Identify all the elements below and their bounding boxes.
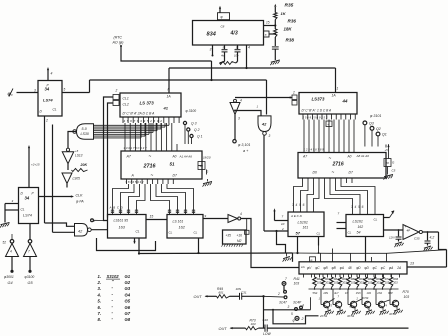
svg-text:φD: φD xyxy=(356,266,361,270)
svg-text:R41: R41 xyxy=(294,277,300,281)
svg-text:G: G xyxy=(206,170,209,174)
svg-text:34: 34 xyxy=(25,196,30,201)
pin box a on U43 right xyxy=(264,31,270,37)
svg-text:CLK: CLK xyxy=(76,194,84,198)
svg-text:φC: φC xyxy=(315,266,320,270)
svg-text:-: - xyxy=(112,316,114,321)
nested data bus loops U51 to counters xyxy=(113,184,129,210)
wire U162 right pin to buffer U55 xyxy=(203,218,228,220)
wire U34b left pins xyxy=(5,203,19,205)
svg-text:LS30: LS30 xyxy=(81,132,89,136)
terminal pad left of U163 xyxy=(91,219,94,222)
svg-text:7: 7 xyxy=(282,215,284,219)
svg-text:A8 A1 A0: A8 A1 A0 xyxy=(356,154,370,158)
svg-text:7.: 7. xyxy=(98,311,102,316)
svg-text:2716: 2716 xyxy=(332,162,344,168)
svg-text:Q2: Q2 xyxy=(376,127,381,131)
wire U43 pin15 to resistor chain xyxy=(264,25,276,27)
wire G4 down to pad xyxy=(11,257,13,271)
svg-text:3C4P: 3C4P xyxy=(293,301,302,305)
bundle of 8 address lines from U41 to gate Y1 xyxy=(93,124,169,126)
svg-text:φ: φ xyxy=(311,258,313,262)
wire U54b left pins xyxy=(337,222,347,224)
svg-text:5: 5 xyxy=(331,304,333,308)
wire pin a to chain xyxy=(269,33,275,35)
svg-text:5: 5 xyxy=(64,88,66,92)
svg-text:3: 3 xyxy=(288,305,290,309)
svg-text:-: - xyxy=(112,298,114,303)
svg-text:LS161: LS161 xyxy=(298,221,308,225)
svg-text:3: 3 xyxy=(12,199,14,203)
resistor 20K horizontal xyxy=(72,168,88,171)
svg-text:+16: +16 xyxy=(237,234,243,238)
svg-text:4P: 4P xyxy=(407,229,411,233)
svg-text:42: 42 xyxy=(78,230,83,234)
vertical address lines crossing down to EPROM U51 xyxy=(124,123,126,144)
svg-text:2.: 2. xyxy=(97,280,102,285)
wire U45 input down to terminal xyxy=(234,115,236,140)
svg-text:5-0: 5-0 xyxy=(82,127,87,131)
svg-text:103: 103 xyxy=(294,282,300,286)
svg-text:LS 161: LS 161 xyxy=(173,220,184,224)
pin stubs above U163 xyxy=(112,210,114,215)
inverter U52 LS13 triangle xyxy=(66,148,69,151)
svg-text:(RTC: (RTC xyxy=(114,36,123,40)
svg-text:R66: R66 xyxy=(393,277,398,281)
ground right of U51 loops xyxy=(207,179,209,182)
svg-text:a +: a + xyxy=(243,149,249,153)
svg-text:φ 3101: φ 3101 xyxy=(370,114,381,118)
wire RTC down and right net W1 xyxy=(121,46,212,61)
counter U54b 74LS161 box xyxy=(346,215,384,237)
wire net W2 long horizontal xyxy=(90,79,267,81)
svg-text:CL: CL xyxy=(374,218,378,222)
svg-text:CL2: CL2 xyxy=(123,103,129,107)
svg-text:+2+15: +2+15 xyxy=(31,163,40,167)
svg-text:1 2 3 4 5 6 7 8 9: 1 2 3 4 5 6 7 8 9 xyxy=(304,147,325,151)
svg-text:M2: M2 xyxy=(237,239,242,243)
flip-flop U34a 74LS74 box xyxy=(38,81,62,117)
transistor Q15 xyxy=(392,300,398,306)
pin stubs below EPROM U54 xyxy=(302,178,304,183)
wire inverter U45 to U44 pin2 xyxy=(235,97,292,99)
svg-text:R66: R66 xyxy=(351,277,356,281)
svg-text:~: ~ xyxy=(332,170,335,175)
svg-text:2: 2 xyxy=(356,297,359,301)
svg-text:+35: +35 xyxy=(226,234,232,238)
terminal Q3 right xyxy=(363,121,367,125)
vertical lines U44 down to EPROM U54 xyxy=(303,120,305,146)
svg-text:4: 4 xyxy=(302,304,304,308)
svg-text:2: 2 xyxy=(301,317,304,321)
counter U57 74LS161 box xyxy=(288,212,324,237)
wire step horizontal y309 xyxy=(264,309,311,311)
wire arrow pin7 into U57 xyxy=(274,211,276,221)
wire op-amp output right xyxy=(422,231,438,233)
svg-text:-: - xyxy=(112,291,114,296)
svg-text:A1 A4 A6: A1 A4 A6 xyxy=(179,155,193,159)
svg-text:11: 11 xyxy=(236,46,239,50)
svg-text:3: 3 xyxy=(210,48,212,52)
svg-text:φ: φ xyxy=(293,319,295,323)
svg-text:C8: C8 xyxy=(221,25,225,29)
svg-text:G5: G5 xyxy=(28,281,34,285)
svg-text:6.: 6. xyxy=(98,305,102,310)
svg-text:G3: G3 xyxy=(125,286,131,291)
nested data bus loops U54 to counters xyxy=(294,183,303,207)
svg-text:G6: G6 xyxy=(125,305,131,310)
svg-text:LS161 95: LS161 95 xyxy=(114,219,129,223)
svg-text:162: 162 xyxy=(358,225,364,229)
pin stubs below EPROM U51 xyxy=(126,179,128,184)
svg-text:Q 2: Q 2 xyxy=(194,128,200,132)
svg-text:163: 163 xyxy=(119,226,126,230)
capacitor C31 xyxy=(239,293,241,300)
svg-text:2716: 2716 xyxy=(143,164,157,170)
flag box on top of U48 xyxy=(310,257,316,262)
wire U34a bottom pin down long vertical xyxy=(44,116,46,223)
svg-text:+5: +5 xyxy=(385,148,389,152)
terminal phi3101 a+ xyxy=(233,140,236,143)
node RTC stub xyxy=(120,45,122,47)
svg-text:G2: G2 xyxy=(125,280,131,285)
wire U34b bottom to buffer G5 xyxy=(29,224,31,240)
wire OUT lower with arrow xyxy=(231,327,246,329)
svg-text:3C54: 3C54 xyxy=(389,312,397,316)
wire U55 output down to DAC box xyxy=(241,219,299,268)
svg-text:R38: R38 xyxy=(286,38,295,43)
svg-text:R68: R68 xyxy=(368,277,373,281)
capacitor C35 on output xyxy=(427,232,429,240)
svg-text:G8: G8 xyxy=(125,317,131,322)
svg-text:R65: R65 xyxy=(342,277,347,281)
svg-text:CL1: CL1 xyxy=(123,97,129,101)
wire bus extension right xyxy=(293,252,331,254)
resistor R33 heater zigzag under capacitors xyxy=(224,58,226,62)
svg-text:C: C xyxy=(368,307,370,311)
chip select detail right of U54 xyxy=(385,145,387,148)
wire U41 CL1 left and down xyxy=(104,97,114,221)
pin stubs bottom of U48 xyxy=(303,274,305,278)
gate Y2 74LS00 NAND xyxy=(258,116,271,132)
svg-text:4,2: 4,2 xyxy=(430,236,435,240)
wire C31 to junction xyxy=(242,295,264,297)
wire U54b bottom to bus xyxy=(365,237,367,262)
svg-text:4/3: 4/3 xyxy=(230,31,238,37)
small box marker in U44 bus xyxy=(326,121,332,127)
wire net W3 horizontal xyxy=(169,67,336,69)
svg-text:φ 3100: φ 3100 xyxy=(186,109,197,113)
svg-text:CL: CL xyxy=(169,231,173,235)
DAC resistor pack U48 long box xyxy=(299,262,407,274)
ground left of U34b xyxy=(1,223,10,225)
svg-text:A0: A0 xyxy=(347,155,352,159)
terminal Q2 right xyxy=(370,126,374,130)
svg-text:3 4 5 6: 3 4 5 6 xyxy=(292,203,305,207)
svg-text:5: 5 xyxy=(291,312,293,316)
flip-flop U34b 74LS74 box xyxy=(19,188,39,224)
svg-text:D7: D7 xyxy=(349,171,353,175)
svg-text:A7: A7 xyxy=(126,155,132,159)
ground right of U54 xyxy=(384,175,393,177)
wire U162 bottom to bus xyxy=(198,238,200,253)
wire inverter output down xyxy=(67,164,69,170)
svg-text:D: D xyxy=(40,110,43,114)
svg-text:10: 10 xyxy=(200,164,204,168)
svg-text:R67: R67 xyxy=(359,277,364,281)
svg-text:φ FA: φ FA xyxy=(76,200,84,204)
svg-text:C35: C35 xyxy=(414,237,420,241)
svg-text:4 5 6 7 8 3 9 5 2 6: 4 5 6 7 8 3 9 5 2 6 9 2 xyxy=(124,119,163,123)
inverter U45 triangle xyxy=(234,99,237,102)
svg-text:D: D xyxy=(21,192,24,196)
svg-text:φV: φV xyxy=(307,266,312,270)
svg-text:-: - xyxy=(112,285,114,290)
svg-text:G7: G7 xyxy=(125,311,131,316)
svg-text:51: 51 xyxy=(170,162,176,167)
svg-text:Q1: Q1 xyxy=(382,133,387,137)
svg-text:1A: 1A xyxy=(301,265,305,269)
signal arrow phi2 vertical xyxy=(28,148,30,188)
svg-text:18/20: 18/20 xyxy=(203,156,211,160)
svg-text:R70: R70 xyxy=(403,290,409,294)
svg-text:161: 161 xyxy=(303,226,309,230)
wire W3 left end down to U41 pin F xyxy=(168,68,170,93)
svg-text:15: 15 xyxy=(150,215,154,219)
svg-text:10N: 10N xyxy=(323,291,328,295)
svg-text:5N4: 5N4 xyxy=(313,291,318,295)
counter U163 74LS161 box xyxy=(108,215,147,239)
svg-text:44: 44 xyxy=(342,99,348,104)
svg-text:4: 4 xyxy=(240,99,242,103)
wire U163 carry to U162 xyxy=(146,219,167,221)
wire C3 CL stub joins bus xyxy=(318,246,320,254)
svg-text:4: 4 xyxy=(240,212,242,216)
wire step down and across xyxy=(273,310,319,324)
svg-text:R64: R64 xyxy=(334,277,339,281)
svg-text:LS 373: LS 373 xyxy=(140,101,155,106)
resistor ladder R62-R71 xyxy=(314,274,316,277)
svg-text:R63: R63 xyxy=(325,277,330,281)
wire Y2 output long vertical down xyxy=(263,135,265,231)
svg-text:″: ″ xyxy=(112,279,115,284)
IC U43 oscillator box 8T34 xyxy=(193,21,264,46)
EPROM U51 2716 box xyxy=(121,151,202,179)
svg-text:7: 7 xyxy=(28,250,30,254)
svg-text:2: 2 xyxy=(277,292,280,296)
svg-text:162: 162 xyxy=(179,226,186,230)
svg-text:6N8: 6N8 xyxy=(350,305,355,309)
svg-text:15: 15 xyxy=(266,21,270,25)
svg-text:2: 2 xyxy=(45,119,48,123)
wire second long vertical into gate Y1 xyxy=(52,125,54,233)
svg-text:3C54: 3C54 xyxy=(347,314,355,318)
svg-text:OUT: OUT xyxy=(194,295,203,299)
ground stub on bus xyxy=(286,253,288,257)
svg-text:1: 1 xyxy=(319,297,321,301)
svg-text:10: 10 xyxy=(281,222,285,226)
svg-text:1: 1 xyxy=(257,105,259,109)
svg-text:φC: φC xyxy=(373,266,378,270)
svg-text:+: + xyxy=(405,225,407,229)
svg-text:54: 54 xyxy=(357,231,361,235)
svg-text:CL: CL xyxy=(53,108,57,112)
svg-text:4: 4 xyxy=(386,304,388,308)
op-amp U58 triangle xyxy=(403,225,419,240)
svg-text:4: 4 xyxy=(10,250,12,254)
wire U43 top arrow +5 xyxy=(219,8,221,13)
gate Y3 74LS00 NAND left xyxy=(75,224,88,237)
base feed wires from rail to transistors xyxy=(320,289,322,305)
transistor Q11 xyxy=(335,301,341,307)
svg-text:42: 42 xyxy=(261,122,267,127)
wire U43 pin4 down to net W3 xyxy=(246,45,248,68)
capacitor C34 at op-amp input xyxy=(398,230,400,236)
transistor Q10 xyxy=(323,301,329,307)
svg-text:φD: φD xyxy=(364,266,369,270)
svg-text:F: F xyxy=(168,88,171,92)
svg-text:R36: R36 xyxy=(288,19,297,24)
svg-text:φB: φB xyxy=(323,266,328,270)
capacitor C9 under U43 xyxy=(224,45,226,49)
wire W3 right end down to U44 pin 1 xyxy=(335,68,337,93)
ground below resistor chain xyxy=(271,60,280,62)
svg-text:5.: 5. xyxy=(98,299,102,304)
capacitor C11 bottom of chain xyxy=(272,46,279,48)
pin 3 stub under U43 xyxy=(212,45,214,56)
wire output to right edge xyxy=(439,232,447,250)
svg-text:103: 103 xyxy=(251,322,256,326)
wire R49 to C31 xyxy=(230,295,240,297)
svg-text:52: 52 xyxy=(3,241,7,245)
capacitor C40 xyxy=(259,327,265,329)
svg-text:φ: φ xyxy=(221,15,223,19)
svg-text:A0: A0 xyxy=(172,155,177,159)
terminal Q2 xyxy=(187,128,190,131)
wire pad down to switch S1 xyxy=(283,285,285,290)
pin box right of M2 xyxy=(245,230,250,234)
svg-text:P: P xyxy=(32,192,35,196)
svg-text:3C47: 3C47 xyxy=(279,301,287,305)
wire phi1 input to U34a pin 3 xyxy=(17,92,39,94)
wire U34a top pin 4 arrow up xyxy=(47,70,49,81)
svg-text:Q 1: Q 1 xyxy=(197,135,203,139)
wire U34b output Q right with CLK label xyxy=(39,196,73,198)
wire branch down to bus xyxy=(277,231,286,253)
svg-text:R62: R62 xyxy=(317,277,322,281)
svg-text:1A: 1A xyxy=(167,95,172,99)
wire U57 bottom to bus xyxy=(297,237,299,254)
svg-text:C5: C5 xyxy=(392,169,396,173)
svg-text:7: 7 xyxy=(338,212,340,216)
svg-text:-: - xyxy=(112,304,114,309)
svg-text:CL: CL xyxy=(194,231,198,235)
svg-text:2: 2 xyxy=(115,89,118,93)
flag box on top of U43 xyxy=(218,13,230,20)
svg-text:A B C D: A B C D xyxy=(109,206,124,210)
wire Y3 output to counter U163 xyxy=(91,229,107,231)
svg-text:~: ~ xyxy=(329,156,332,161)
svg-text:7: 7 xyxy=(285,277,287,281)
latch U41 74LS373 box xyxy=(120,93,181,117)
wire OUT lower rail right xyxy=(267,327,408,329)
pin boxes left of U41 xyxy=(113,95,119,100)
svg-text:~: ~ xyxy=(151,173,154,178)
svg-text:3: 3 xyxy=(269,134,271,138)
svg-text:3: 3 xyxy=(238,117,240,121)
wire U54b output to op-amp xyxy=(384,229,404,231)
svg-text:1A: 1A xyxy=(332,94,337,98)
resistor R73 xyxy=(246,326,259,329)
wire Y1 output to inverter xyxy=(68,132,77,149)
svg-text:20: 20 xyxy=(385,161,390,165)
svg-text:φ 3,101: φ 3,101 xyxy=(238,143,250,147)
svg-text:2C54: 2C54 xyxy=(319,314,328,318)
svg-text:4u7: 4u7 xyxy=(334,291,339,295)
pin stubs top of U48 xyxy=(320,257,322,262)
wire U163 bottom pin with arrow xyxy=(134,238,136,244)
wire G5 down to pad xyxy=(29,257,31,271)
terminal phi2 pad xyxy=(295,316,299,320)
wire DAC 13 output xyxy=(407,266,447,268)
svg-text:2A: 2A xyxy=(396,266,401,270)
svg-text:a: a xyxy=(265,33,267,37)
svg-text:LOW: LOW xyxy=(263,332,272,336)
svg-text:3: 3 xyxy=(34,89,36,93)
svg-text:3C54: 3C54 xyxy=(362,296,369,300)
svg-text:3.: 3. xyxy=(98,286,102,291)
wire U54b right top pin diagonal arrow xyxy=(384,217,390,219)
svg-text:1.: 1. xyxy=(98,274,102,279)
svg-text:A E C D: A E C D xyxy=(290,214,303,218)
transistor Q14 xyxy=(378,301,384,307)
svg-text:AO (φ): AO (φ) xyxy=(112,41,124,45)
svg-text:3 3 3 1 7 6 C 4 3 7: 3 3 3 1 7 6 C 4 3 7 xyxy=(124,146,147,150)
svg-text:1K: 1K xyxy=(281,11,287,16)
wire step right to transistors xyxy=(310,297,312,310)
svg-text:φ3100: φ3100 xyxy=(25,275,35,279)
svg-text:48: 48 xyxy=(348,266,352,270)
capacitor C10 under U43 xyxy=(237,45,239,49)
svg-text:18K: 18K xyxy=(284,27,293,32)
transistor Q13 xyxy=(364,301,370,307)
svg-text:10v: 10v xyxy=(234,54,239,58)
terminal Q1 xyxy=(190,134,193,137)
svg-text:103: 103 xyxy=(367,291,372,295)
svg-text:φB: φB xyxy=(332,266,337,270)
svg-text:LS05: LS05 xyxy=(73,177,81,181)
svg-text:D7: D7 xyxy=(173,174,177,178)
pin stubs above EPROM U51 xyxy=(124,144,126,151)
svg-text:φA: φA xyxy=(340,266,344,270)
svg-text:A: A xyxy=(131,174,135,178)
svg-text:9: 9 xyxy=(205,214,207,218)
svg-text:2N2: 2N2 xyxy=(376,291,382,295)
terminal Q3 xyxy=(183,121,186,124)
svg-text:12N: 12N xyxy=(389,236,395,240)
wire counters down to U48 top xyxy=(332,249,334,258)
svg-text:C31: C31 xyxy=(241,290,247,294)
pin stubs above EPROM U54 xyxy=(303,146,305,153)
svg-text:8.: 8. xyxy=(98,317,102,322)
svg-text:Q 3: Q 3 xyxy=(191,122,197,126)
wire U163 bottom to bus xyxy=(138,238,140,254)
inverter U53 LS05 triangle xyxy=(62,173,72,184)
svg-text:D′ C′ B′ A′ 1 D C B A: D′ C′ B′ A′ 1 D C B A xyxy=(302,109,332,113)
wire junction to switch S1 xyxy=(264,295,285,298)
svg-text:G4: G4 xyxy=(8,281,13,285)
svg-text:~: ~ xyxy=(149,154,152,159)
